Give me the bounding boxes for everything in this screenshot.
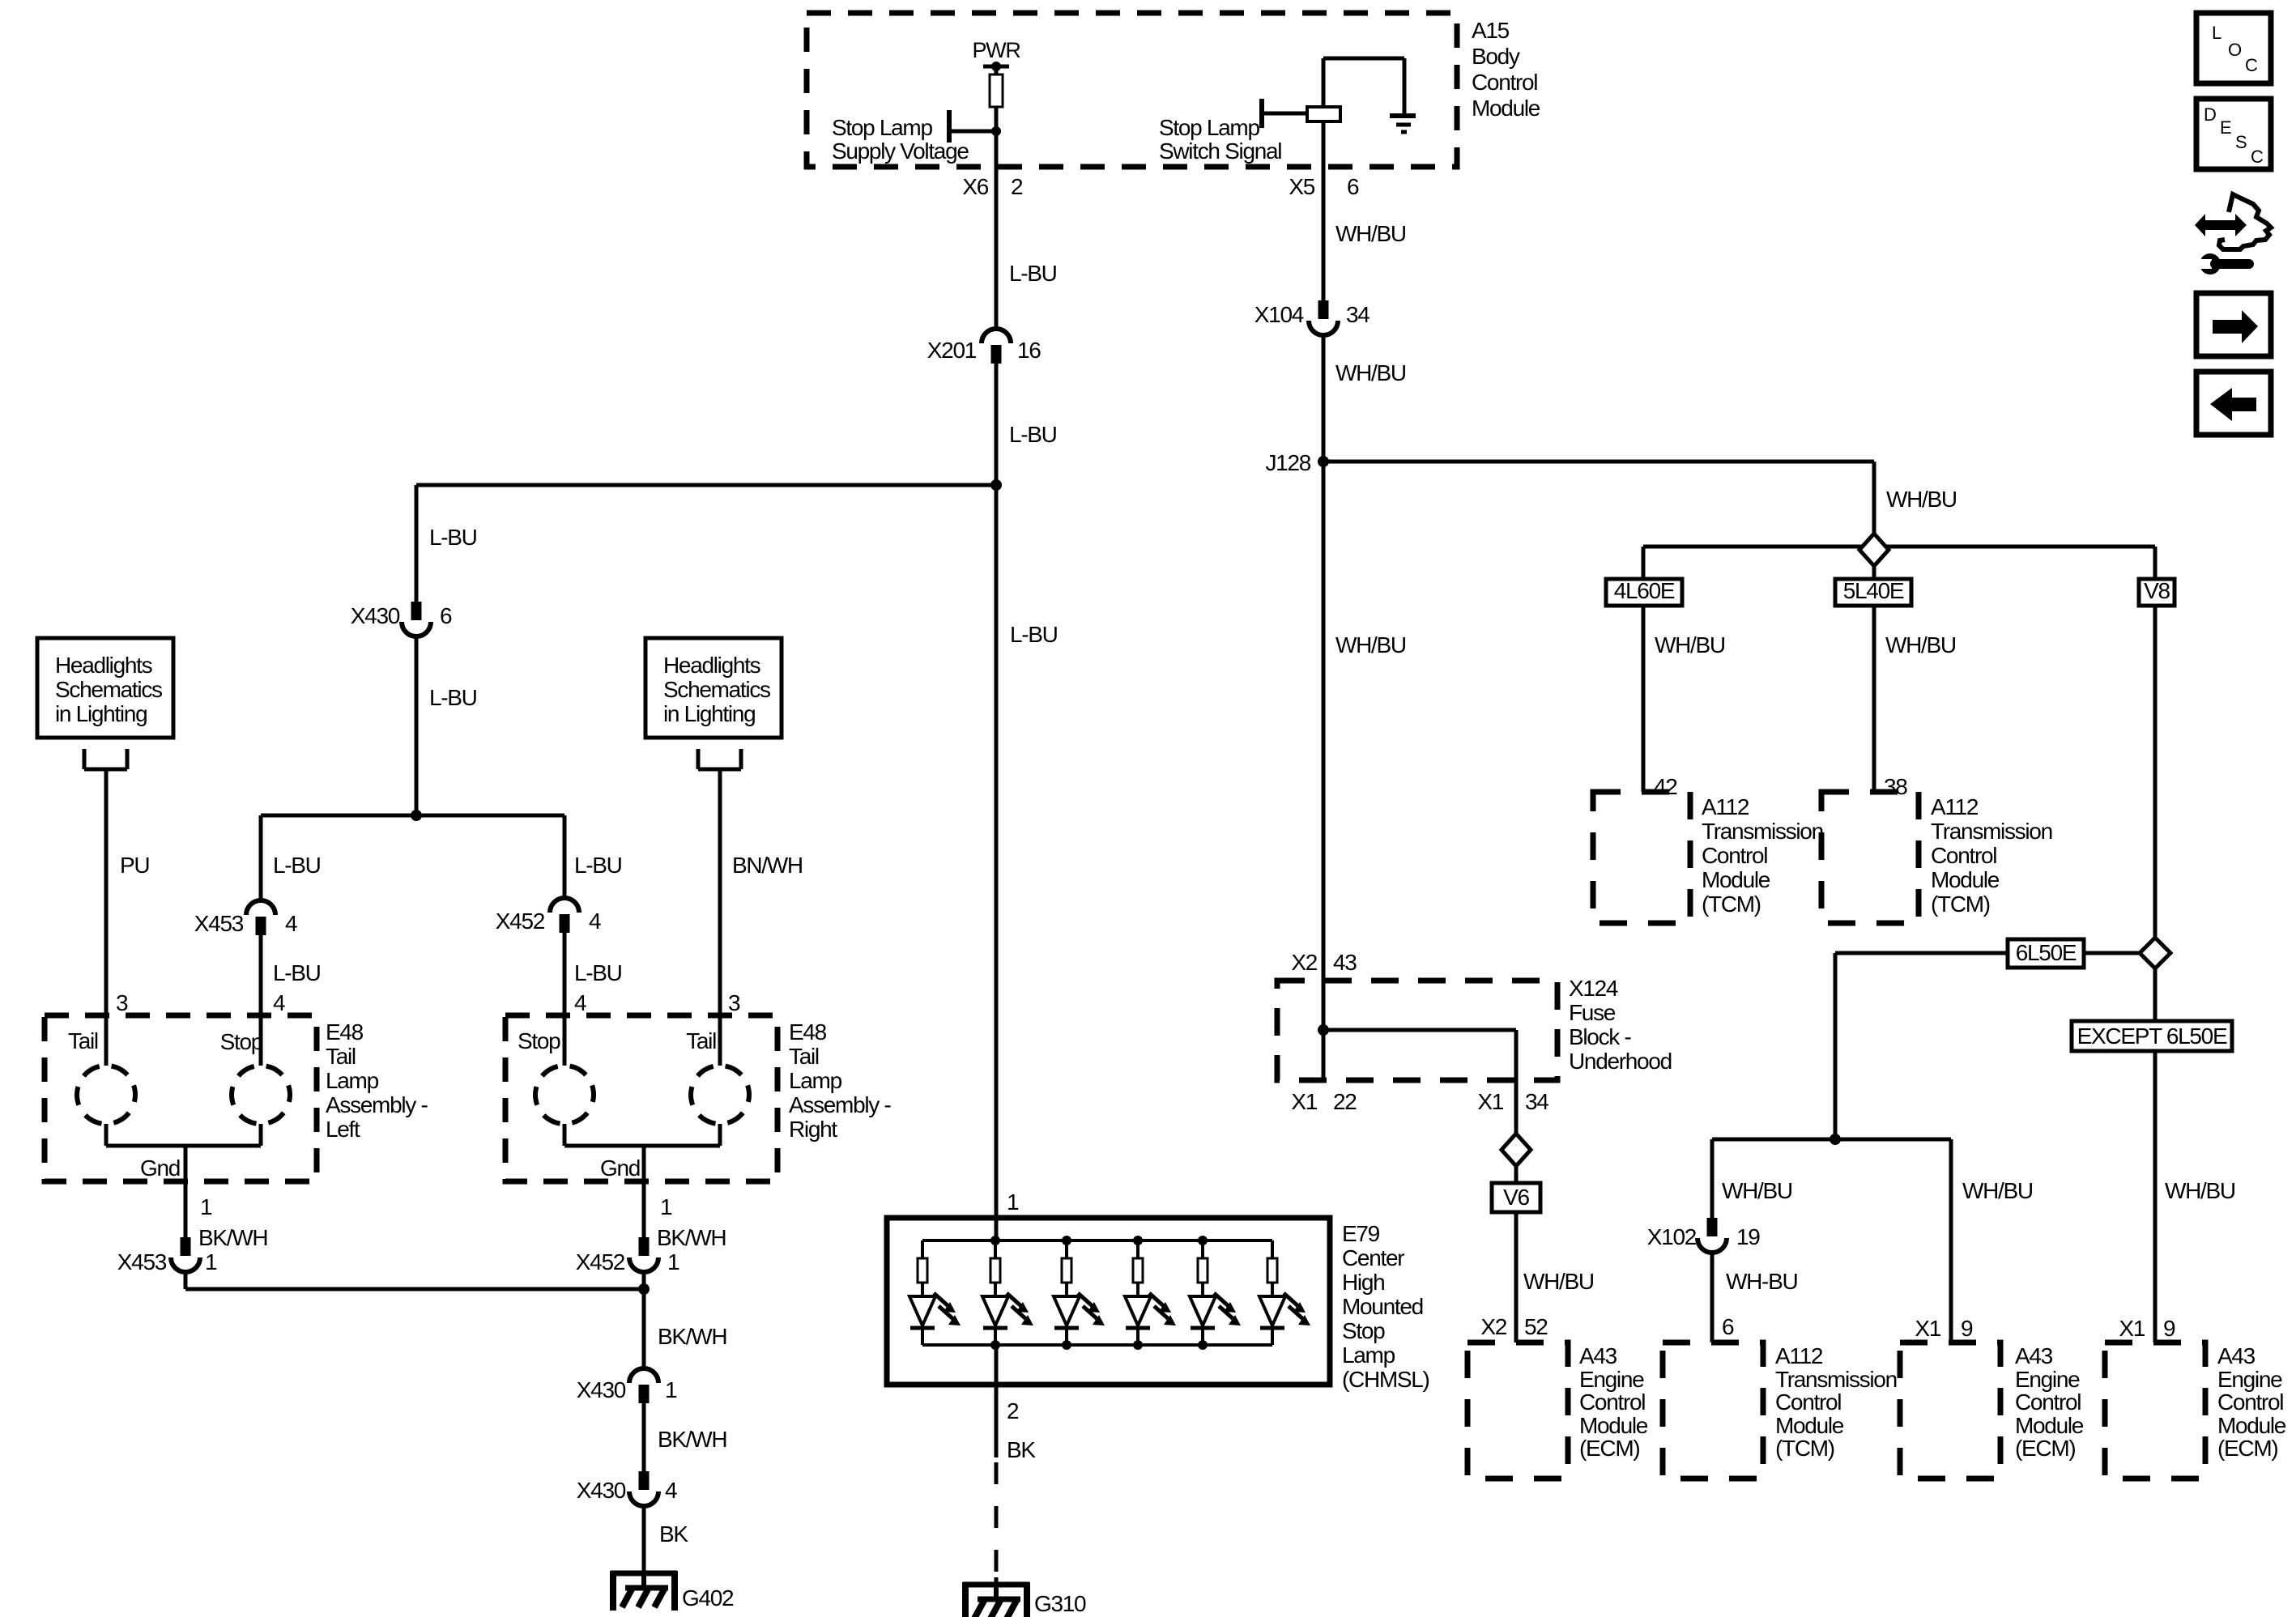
- node option diamond junction 6L50E: [2140, 938, 2170, 968]
- svg-text:Engine: Engine: [1579, 1367, 1644, 1392]
- node option diamond junction: [1859, 534, 1889, 566]
- wire X6-2 output L-BU down to X201: [995, 131, 999, 329]
- svg-text:PU: PU: [120, 853, 149, 878]
- icon forward arrow box: [2196, 293, 2271, 356]
- svg-text:22: 22: [1333, 1089, 1357, 1114]
- svg-text:6: 6: [440, 603, 452, 628]
- svg-text:9: 9: [2163, 1316, 2175, 1341]
- svg-text:X1: X1: [1477, 1089, 1503, 1114]
- svg-text:Control: Control: [2015, 1389, 2081, 1415]
- svg-text:A43: A43: [2015, 1343, 2053, 1368]
- module E48 Tail Lamp Assembly Right dashed box: [505, 1015, 777, 1181]
- svg-text:L-BU: L-BU: [1009, 422, 1057, 447]
- svg-text:Transmission: Transmission: [1775, 1367, 1897, 1392]
- wire inside fuse block to X1-34: [1323, 1030, 1516, 1134]
- svg-text:PWR: PWR: [972, 38, 1020, 62]
- wire BK dashed to ground G310: [995, 1462, 999, 1599]
- svg-text:34: 34: [1346, 302, 1370, 327]
- svg-text:E48: E48: [326, 1019, 364, 1045]
- wire distribution bus to 4L60E 5L40E V8: [1643, 547, 2155, 938]
- module A112 Transmission Control Module TCM dashed box 6L50E: [1663, 1343, 1763, 1479]
- module A43 Engine Control Module ECM dashed box V6: [1467, 1343, 1568, 1479]
- svg-text:Control: Control: [1702, 843, 1767, 868]
- node bottom bus junction: [1198, 1340, 1208, 1350]
- label E48 Tail Lamp Assembly - Left: [326, 1019, 428, 1142]
- icon LOC box: [2196, 13, 2271, 83]
- svg-text:WH/BU: WH/BU: [1655, 632, 1725, 657]
- svg-text:Headlights: Headlights: [55, 653, 152, 678]
- svg-text:G402: G402: [682, 1585, 734, 1611]
- pin X6 2: [962, 174, 1023, 199]
- svg-text:Transmission: Transmission: [1931, 819, 2052, 844]
- svg-text:X430: X430: [351, 603, 400, 628]
- svg-text:Right: Right: [789, 1117, 837, 1142]
- svg-text:C: C: [2251, 147, 2264, 167]
- wire split to left and right stop lamp branches: [261, 815, 564, 900]
- label A112 Transmission Control Module (TCM): [1702, 794, 1823, 917]
- svg-text:2: 2: [1007, 1398, 1019, 1423]
- wire ground link X453-1 to X452-1 junction: [185, 1274, 644, 1289]
- connector X102 pin 19: [1698, 1218, 1727, 1253]
- icon back arrow box: [2196, 372, 2271, 435]
- wire 6L50E branch: [1835, 953, 2140, 1139]
- pin 1 of left E48: [185, 1181, 212, 1237]
- svg-text:BN/WH: BN/WH: [732, 853, 803, 878]
- svg-text:L-BU: L-BU: [574, 960, 622, 985]
- module A43 Engine Control Module ECM dashed box 3: [1900, 1343, 2000, 1479]
- svg-text:Module: Module: [1775, 1413, 1844, 1438]
- svg-text:Lamp: Lamp: [1342, 1343, 1395, 1368]
- tag 4L60E: [1606, 578, 1682, 606]
- svg-text:X453: X453: [117, 1249, 167, 1274]
- svg-text:BK/WH: BK/WH: [198, 1225, 267, 1250]
- svg-text:Stop: Stop: [518, 1028, 560, 1053]
- svg-text:BK: BK: [659, 1521, 688, 1547]
- wire lamp grounds to Gnd pin: [564, 1124, 720, 1181]
- svg-text:(CHMSL): (CHMSL): [1342, 1367, 1429, 1392]
- svg-text:1: 1: [665, 1377, 677, 1402]
- wire L-BU X452-4 to right Stop lamp: [563, 933, 567, 1066]
- svg-text:High: High: [1342, 1270, 1384, 1295]
- label A43 Engine Control Module (ECM): [2015, 1343, 2084, 1461]
- connector X453 pin 4: [246, 900, 275, 935]
- led D1 with resistor R1: [909, 1240, 961, 1345]
- svg-text:5L40E: 5L40E: [1843, 578, 1904, 603]
- svg-text:A112: A112: [1931, 794, 1979, 819]
- svg-text:Module: Module: [1702, 867, 1770, 892]
- svg-text:WH/BU: WH/BU: [1335, 360, 1406, 385]
- svg-text:4: 4: [589, 908, 601, 934]
- svg-text:C: C: [2245, 55, 2258, 75]
- connector X430 pin 1: [629, 1368, 658, 1403]
- pin X1 9 of ECM: [2119, 1316, 2175, 1341]
- svg-text:(ECM): (ECM): [1579, 1436, 1639, 1461]
- wire PU from left headlights reference to left Tail lamp: [104, 769, 109, 1066]
- node split junction to both stop lamps: [411, 810, 422, 821]
- led D4 with resistor R4: [1125, 1240, 1176, 1345]
- led D6 with resistor R6: [1259, 1240, 1310, 1345]
- svg-text:X452: X452: [576, 1249, 625, 1274]
- svg-text:19: 19: [1736, 1224, 1760, 1249]
- svg-text:WH-BU: WH-BU: [1726, 1269, 1797, 1294]
- wire lamp grounds to Gnd pin: [106, 1124, 261, 1181]
- svg-text:43: 43: [1333, 950, 1357, 975]
- svg-text:WH/BU: WH/BU: [1886, 487, 1957, 512]
- wire branch to left tail lamps: [416, 485, 996, 602]
- svg-text:(TCM): (TCM): [1775, 1436, 1834, 1461]
- svg-text:X452: X452: [496, 908, 545, 934]
- svg-text:E: E: [2220, 117, 2231, 138]
- connector X430 pin 6: [402, 602, 431, 636]
- svg-text:L-BU: L-BU: [273, 960, 321, 985]
- svg-text:L: L: [2212, 23, 2221, 43]
- svg-text:WH/BU: WH/BU: [1722, 1178, 1792, 1203]
- wire fuse output to Stop Lamp Supply Voltage terminal: [949, 107, 1001, 143]
- ground G310: [963, 1582, 1086, 1617]
- svg-text:Tail: Tail: [789, 1044, 819, 1069]
- ground BCM internal ground symbol: [1390, 116, 1416, 132]
- svg-text:in Lighting: in Lighting: [55, 701, 147, 726]
- svg-text:Headlights: Headlights: [663, 653, 760, 678]
- svg-text:WH/BU: WH/BU: [1335, 221, 1406, 246]
- node junction 6L50E branch split: [1830, 1134, 1841, 1145]
- svg-text:(TCM): (TCM): [1702, 891, 1761, 917]
- svg-text:Underhood: Underhood: [1569, 1049, 1672, 1074]
- wire BN/WH from right headlights reference to right Tail lamp: [718, 769, 722, 1066]
- svg-text:X201: X201: [927, 338, 977, 363]
- lamp left Stop bulb: [220, 1029, 263, 1054]
- wire CHMSL pin 2 output: [995, 1345, 999, 1457]
- pin X1 34 of fuse block: [1477, 1089, 1548, 1114]
- label A112 Transmission Control Module (TCM): [1931, 794, 2052, 917]
- svg-text:Engine: Engine: [2217, 1367, 2282, 1392]
- connector X430 pin 4: [629, 1471, 658, 1506]
- tag V6: [1492, 1183, 1540, 1212]
- wire L-BU from X201 to CHMSL pin 1: [995, 363, 999, 1240]
- svg-text:G310: G310: [1034, 1591, 1086, 1616]
- svg-text:Module: Module: [1472, 96, 1540, 121]
- svg-text:L-BU: L-BU: [574, 853, 622, 878]
- svg-text:4L60E: 4L60E: [1614, 578, 1675, 603]
- node option diamond junction V6: [1502, 1134, 1531, 1166]
- svg-text:Assembly -: Assembly -: [789, 1092, 891, 1117]
- svg-text:J128: J128: [1265, 450, 1310, 475]
- svg-text:BK/WH: BK/WH: [658, 1324, 726, 1349]
- wire diamond to V6 tag: [1514, 1166, 1519, 1183]
- label Stop Lamp Switch Signal: [1159, 115, 1281, 164]
- svg-text:2: 2: [1011, 174, 1023, 199]
- svg-text:6L50E: 6L50E: [2016, 940, 2077, 965]
- svg-text:6: 6: [1722, 1314, 1734, 1339]
- svg-text:L-BU: L-BU: [1009, 261, 1057, 286]
- icon DESC box: [2196, 99, 2271, 169]
- label A15 Body Control Module: [1472, 18, 1540, 121]
- tag 6L50E: [2008, 939, 2084, 968]
- svg-text:6: 6: [1347, 174, 1359, 199]
- svg-text:X453: X453: [194, 911, 244, 936]
- svg-text:Control: Control: [1472, 70, 1537, 95]
- tag 5L40E: [1835, 578, 1911, 606]
- node splice inside fuse block: [1318, 1024, 1329, 1036]
- svg-text:E79: E79: [1342, 1221, 1380, 1246]
- tag V8: [2139, 578, 2175, 606]
- node bottom bus junction: [1133, 1340, 1143, 1350]
- connector X452 pin 1: [629, 1237, 658, 1272]
- wire WH/BU X5-6 down to X104: [1322, 121, 1326, 300]
- svg-text:L-BU: L-BU: [1010, 622, 1058, 647]
- svg-text:Body: Body: [1472, 44, 1520, 69]
- svg-text:Tail: Tail: [326, 1044, 356, 1069]
- svg-text:Fuse: Fuse: [1569, 1000, 1616, 1025]
- svg-text:Gnd: Gnd: [600, 1155, 640, 1181]
- module X124 Fuse Block Underhood dashed box: [1277, 981, 1557, 1080]
- wire CHMSL top bus: [922, 1239, 1272, 1242]
- svg-text:Module: Module: [1931, 867, 2000, 892]
- svg-text:V8: V8: [2144, 578, 2170, 603]
- node top bus junction: [1198, 1236, 1208, 1245]
- svg-text:X1: X1: [1915, 1316, 1940, 1341]
- svg-text:9: 9: [1961, 1316, 1973, 1341]
- svg-text:Stop Lamp: Stop Lamp: [832, 115, 932, 140]
- node bottom bus junction: [1062, 1340, 1071, 1350]
- svg-text:34: 34: [1525, 1089, 1548, 1114]
- svg-text:Engine: Engine: [2015, 1367, 2080, 1392]
- svg-text:Gnd: Gnd: [140, 1155, 180, 1181]
- module A43 Engine Control Module ECM dashed box 4: [2105, 1343, 2205, 1479]
- module E79 CHMSL box: [887, 1218, 1330, 1385]
- svg-text:WH/BU: WH/BU: [1962, 1178, 2033, 1203]
- svg-text:V6: V6: [1503, 1185, 1529, 1210]
- pin X5 6: [1289, 174, 1359, 199]
- connector X201 pin 16: [982, 329, 1011, 364]
- svg-text:L-BU: L-BU: [273, 853, 321, 878]
- connector X453 pin 1: [171, 1237, 200, 1272]
- svg-text:O: O: [2228, 40, 2242, 60]
- svg-text:BK/WH: BK/WH: [657, 1225, 726, 1250]
- svg-text:X1: X1: [2119, 1316, 2145, 1341]
- svg-text:Center: Center: [1342, 1245, 1404, 1270]
- svg-text:A15: A15: [1472, 18, 1510, 43]
- module A15 Body Control Module dashed box: [807, 13, 1457, 167]
- wire WH-BU from X102 to TCM pin 6: [1710, 1254, 1715, 1343]
- block right Headlights Schematics in Lighting: [645, 638, 782, 769]
- svg-text:BK/WH: BK/WH: [658, 1427, 726, 1452]
- lamp left Tail bulb: [68, 1028, 98, 1053]
- pin X1 9 of ECM: [1915, 1316, 1973, 1341]
- svg-text:Module: Module: [2015, 1413, 2084, 1438]
- pin X2 52 of ECM: [1480, 1314, 1548, 1339]
- label A43 Engine Control Module (ECM): [1579, 1343, 1648, 1461]
- node J128 splice: [1318, 456, 1329, 467]
- svg-text:4: 4: [285, 911, 297, 936]
- led D5 with resistor R5: [1190, 1240, 1241, 1345]
- svg-text:1: 1: [660, 1194, 672, 1219]
- svg-text:BK: BK: [1007, 1437, 1036, 1462]
- svg-text:X104: X104: [1254, 302, 1304, 327]
- wire L-BU from X430-6 down to split: [415, 638, 419, 815]
- connector X452 pin 4: [550, 898, 579, 933]
- label Stop Lamp Supply Voltage: [832, 115, 969, 164]
- wire CHMSL bottom bus: [922, 1343, 1272, 1347]
- wire WH/BU from X104 to fuse block X124: [1322, 334, 1326, 1080]
- svg-text:3: 3: [728, 990, 740, 1015]
- svg-text:WH/BU: WH/BU: [2165, 1178, 2235, 1203]
- module E48 Tail Lamp Assembly Left dashed box: [45, 1015, 317, 1181]
- svg-text:4: 4: [273, 990, 285, 1015]
- label X124 Fuse Block - Underhood: [1569, 976, 1672, 1074]
- svg-text:Schematics: Schematics: [55, 677, 162, 702]
- svg-text:Module: Module: [1579, 1413, 1648, 1438]
- svg-text:Tail: Tail: [68, 1028, 98, 1053]
- wire split to X102 and ECM: [1712, 1139, 1951, 1343]
- svg-text:X102: X102: [1647, 1224, 1697, 1249]
- svg-text:Stop: Stop: [220, 1029, 263, 1054]
- svg-text:1: 1: [1007, 1189, 1019, 1215]
- svg-text:WH/BU: WH/BU: [1335, 632, 1406, 657]
- label E48 Tail Lamp Assembly - Right: [789, 1019, 891, 1142]
- svg-text:Tail: Tail: [686, 1028, 716, 1053]
- svg-text:S: S: [2235, 132, 2247, 152]
- svg-text:Control: Control: [2217, 1389, 2283, 1415]
- node top bus junction: [990, 1236, 1000, 1245]
- svg-text:Lamp: Lamp: [326, 1068, 379, 1093]
- svg-text:38: 38: [1884, 774, 1907, 799]
- svg-text:1: 1: [200, 1194, 212, 1219]
- svg-text:X430: X430: [577, 1478, 626, 1503]
- fuse PWR symbol inside BCM: [972, 38, 1020, 107]
- svg-text:Module: Module: [2217, 1413, 2286, 1438]
- label A43 Engine Control Module (ECM): [2217, 1343, 2286, 1461]
- icon vehicle with double arrow and wrench: [2189, 194, 2271, 274]
- wire J128 splice to transmission distribution: [1323, 462, 1874, 534]
- svg-text:WH/BU: WH/BU: [1885, 632, 1956, 657]
- node top bus junction: [1133, 1236, 1143, 1245]
- svg-text:A43: A43: [1579, 1343, 1617, 1368]
- module A112 Transmission Control Module TCM dashed box 4L60E: [1593, 792, 1690, 923]
- svg-text:(TCM): (TCM): [1931, 891, 1990, 917]
- svg-text:4: 4: [665, 1478, 677, 1503]
- svg-text:(ECM): (ECM): [2015, 1436, 2075, 1461]
- svg-text:X2: X2: [1480, 1314, 1506, 1339]
- node junction center wire to left branch: [990, 479, 1002, 491]
- svg-text:X124: X124: [1569, 976, 1618, 1001]
- svg-text:Assembly -: Assembly -: [326, 1092, 428, 1117]
- svg-text:X2: X2: [1291, 950, 1317, 975]
- wire WH/BU V6 to ECM pin X2-52: [1514, 1212, 1519, 1343]
- lamp right Tail bulb: [686, 1028, 716, 1053]
- ground G402: [611, 1571, 734, 1611]
- module A112 Transmission Control Module TCM dashed box 5L40E: [1821, 792, 1919, 923]
- svg-text:Control: Control: [1775, 1389, 1841, 1415]
- svg-text:42: 42: [1654, 774, 1677, 799]
- svg-text:X430: X430: [577, 1377, 626, 1402]
- pin X2 43 of fuse block: [1291, 950, 1357, 975]
- svg-text:1: 1: [205, 1249, 217, 1274]
- svg-text:52: 52: [1524, 1314, 1548, 1339]
- wire EXCEPT 6L50E branch to ECM: [2153, 968, 2158, 1343]
- svg-text:4: 4: [574, 990, 586, 1015]
- pin 1 of right E48: [644, 1181, 672, 1237]
- svg-text:X5: X5: [1289, 174, 1314, 199]
- svg-text:Left: Left: [326, 1117, 360, 1142]
- svg-text:(ECM): (ECM): [2217, 1436, 2277, 1461]
- svg-text:L-BU: L-BU: [429, 525, 477, 550]
- connector X104 pin 34: [1309, 300, 1338, 335]
- svg-text:X1: X1: [1291, 1089, 1317, 1114]
- svg-text:Lamp: Lamp: [789, 1068, 842, 1093]
- tag EXCEPT 6L50E: [2072, 1021, 2232, 1051]
- node bottom bus junction: [990, 1340, 1000, 1350]
- wire BK/WH X430-1 to X430-4: [642, 1402, 646, 1471]
- led D2 with resistor R2: [982, 1240, 1033, 1345]
- svg-text:Control: Control: [1931, 843, 1996, 868]
- svg-text:A43: A43: [2217, 1343, 2256, 1368]
- svg-text:A112: A112: [1775, 1343, 1823, 1368]
- svg-text:L-BU: L-BU: [429, 685, 477, 710]
- svg-text:X6: X6: [962, 174, 988, 199]
- svg-text:Control: Control: [1579, 1389, 1645, 1415]
- svg-text:Transmission: Transmission: [1702, 819, 1823, 844]
- pin X1 22 of fuse block: [1291, 1089, 1357, 1114]
- svg-text:Stop: Stop: [1342, 1318, 1385, 1343]
- wire BK to ground G402: [642, 1508, 646, 1588]
- wire BK/WH junction down to X430-1: [642, 1289, 646, 1368]
- block left Headlights Schematics in Lighting: [37, 638, 173, 769]
- svg-text:WH/BU: WH/BU: [1523, 1269, 1594, 1294]
- label A112 Transmission Control Module (TCM): [1775, 1343, 1897, 1461]
- svg-text:in Lighting: in Lighting: [663, 701, 755, 726]
- svg-text:Block -: Block -: [1569, 1024, 1631, 1049]
- svg-text:1: 1: [667, 1249, 679, 1274]
- switch stop lamp switch contact inside BCM: [1262, 58, 1404, 128]
- label E79 Center High Mounted Stop Lamp (CHMSL): [1342, 1221, 1429, 1392]
- svg-text:Mounted: Mounted: [1342, 1294, 1423, 1319]
- svg-text:Stop Lamp: Stop Lamp: [1159, 115, 1259, 140]
- wire L-BU X453-4 to left Stop lamp: [259, 935, 263, 1066]
- led D3 with resistor R3: [1054, 1240, 1105, 1345]
- svg-text:Schematics: Schematics: [663, 677, 770, 702]
- node ground junction: [638, 1283, 650, 1295]
- lamp right Stop bulb: [518, 1028, 560, 1053]
- node top bus junction: [1062, 1236, 1071, 1245]
- svg-text:D: D: [2204, 104, 2216, 125]
- svg-text:Switch Signal: Switch Signal: [1159, 138, 1281, 164]
- svg-text:3: 3: [116, 990, 128, 1015]
- svg-text:A112: A112: [1702, 794, 1749, 819]
- svg-text:EXCEPT 6L50E: EXCEPT 6L50E: [2077, 1023, 2227, 1049]
- svg-text:16: 16: [1017, 338, 1041, 363]
- svg-text:E48: E48: [789, 1019, 827, 1045]
